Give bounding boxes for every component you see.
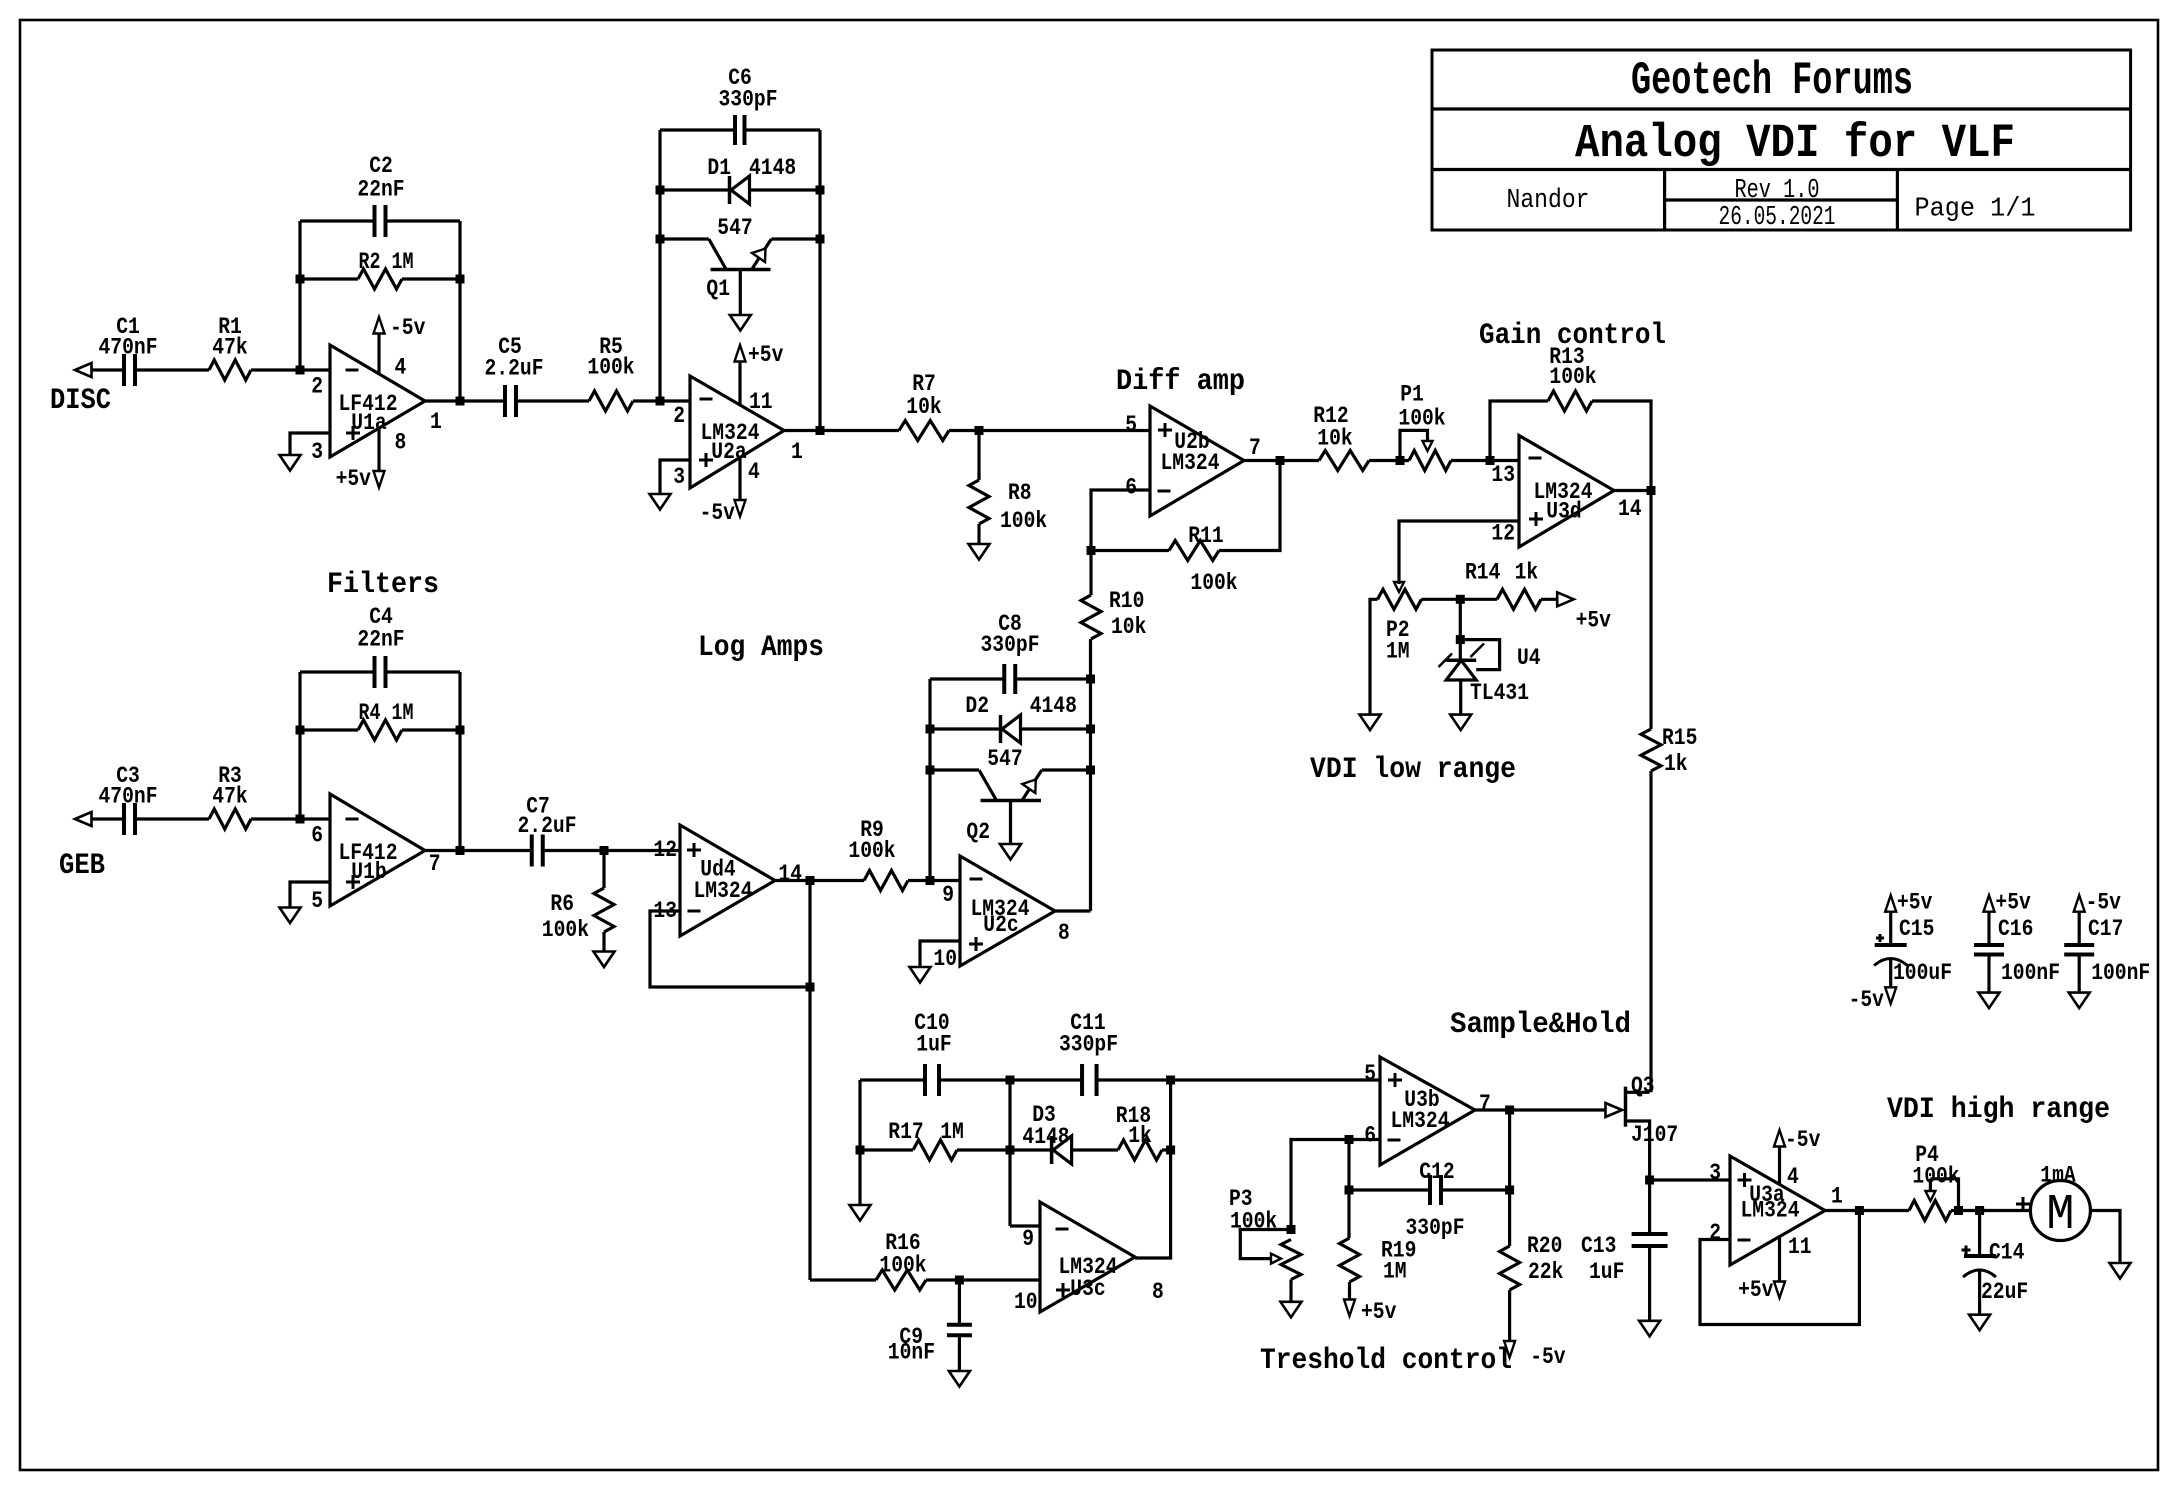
transistor Q3 J107 JFET xyxy=(1606,1073,1679,1180)
svg-text:P1: P1 xyxy=(1400,382,1424,408)
capacitor C15 100uF xyxy=(1849,890,1952,1014)
node D1 anode xyxy=(816,186,825,195)
wire R4 row xyxy=(300,728,460,731)
svg-text:1: 1 xyxy=(430,409,442,435)
svg-text:8: 8 xyxy=(395,430,407,456)
ground at Q2 base xyxy=(1000,844,1021,860)
wire C8 row xyxy=(930,677,1091,680)
wire U1a pin 3 to ground xyxy=(290,433,330,455)
svg-text:Q3: Q3 xyxy=(1631,1073,1655,1099)
capacitor C2 xyxy=(357,153,404,237)
wire R2 row xyxy=(300,277,460,280)
svg-text:47k: 47k xyxy=(212,335,248,361)
svg-text:330pF: 330pF xyxy=(719,87,778,113)
svg-text:100k: 100k xyxy=(587,355,634,381)
ground below C9 xyxy=(949,1371,970,1387)
node Q2 collector xyxy=(926,766,935,775)
node P4 wiper xyxy=(1954,1206,1963,1215)
wire R20 to -5v arrow xyxy=(1508,1290,1511,1345)
wire U2c feedback right vertical xyxy=(1089,679,1092,911)
port GEB input arrow xyxy=(75,812,92,826)
wire R19 vertical xyxy=(1347,1190,1350,1238)
svg-text:470nF: 470nF xyxy=(99,335,158,361)
wire C13 to ground xyxy=(1648,1246,1651,1321)
svg-text:7: 7 xyxy=(429,851,441,877)
svg-text:547: 547 xyxy=(987,746,1022,772)
wire R10 to C8 row xyxy=(1089,639,1092,679)
svg-text:330pF: 330pF xyxy=(981,632,1040,658)
node P3 top xyxy=(1287,1225,1296,1234)
svg-text:+5v: +5v xyxy=(1995,890,2031,916)
power pin 4 of U3a -5v xyxy=(1774,1127,1821,1184)
svg-text:4148: 4148 xyxy=(1022,1124,1069,1150)
wire C4 row xyxy=(300,670,460,673)
svg-text:J107: J107 xyxy=(1631,1122,1678,1148)
wire U3c output vertical xyxy=(1135,1080,1171,1258)
svg-text:4: 4 xyxy=(395,354,407,380)
svg-text:3: 3 xyxy=(311,439,323,465)
wire R9 to U2c pin 9 xyxy=(908,879,960,882)
svg-text:1uF: 1uF xyxy=(1589,1259,1624,1285)
wire U2a feedback left vertical xyxy=(658,130,661,401)
op-amp U1a xyxy=(330,345,425,457)
resistor R14 xyxy=(1465,560,1541,610)
svg-text:-5v: -5v xyxy=(390,315,426,341)
wire Ud4 output to R9 xyxy=(775,879,864,882)
node Q1 collector xyxy=(656,235,665,244)
svg-text:R17: R17 xyxy=(888,1119,923,1145)
capacitor C12 xyxy=(1406,1159,1465,1241)
svg-text:100k: 100k xyxy=(1230,1209,1277,1235)
svg-text:U1a: U1a xyxy=(351,410,387,436)
svg-text:10: 10 xyxy=(933,946,957,972)
wire C6 row xyxy=(660,128,820,131)
svg-text:6: 6 xyxy=(311,823,323,849)
node U1a output feedback xyxy=(456,397,465,406)
resistor R18 xyxy=(1116,1103,1162,1160)
wire C10 left down to R17 xyxy=(858,1080,861,1205)
wire R15 to Q3 drain xyxy=(1649,771,1652,1092)
svg-text:R10: R10 xyxy=(1109,588,1144,614)
svg-text:-5v: -5v xyxy=(1785,1127,1821,1153)
svg-text:R11: R11 xyxy=(1188,523,1223,549)
capacitor C5 xyxy=(485,334,544,417)
capacitor C7 xyxy=(518,794,577,867)
svg-text:Rev 1.0: Rev 1.0 xyxy=(1735,176,1820,206)
wire node to C14 xyxy=(1978,1211,1981,1257)
op-amp U2b xyxy=(1150,406,1244,516)
wire R3 to U1b pin 6 xyxy=(251,817,330,820)
svg-text:R8: R8 xyxy=(1008,480,1032,506)
ground below P2 xyxy=(1360,715,1381,731)
svg-text:U1b: U1b xyxy=(351,859,386,885)
svg-text:R2 1M: R2 1M xyxy=(359,249,414,275)
capacitor C4 xyxy=(357,604,404,688)
title block frame xyxy=(1432,50,2131,230)
wire Q2 row xyxy=(930,768,1091,771)
wire R12 to P1 xyxy=(1369,459,1409,462)
capacitor C3 xyxy=(99,763,158,835)
svg-text:547: 547 xyxy=(717,215,752,241)
ground below C14 xyxy=(1969,1315,1990,1331)
wire U3a output to P4 xyxy=(1825,1209,1909,1212)
node R7 R8 junction xyxy=(975,426,984,435)
svg-text:+5v: +5v xyxy=(1897,890,1933,916)
svg-text:Sample&Hold: Sample&Hold xyxy=(1450,1008,1631,1042)
wire U2a pin 3 to ground xyxy=(660,460,690,494)
svg-text:100k: 100k xyxy=(848,838,895,864)
ground below C13 xyxy=(1639,1321,1660,1337)
svg-text:100k: 100k xyxy=(1190,570,1237,596)
svg-text:10nF: 10nF xyxy=(888,1340,935,1366)
wire U2c pin 10 to ground xyxy=(920,941,960,967)
transistor Q2 547 xyxy=(966,746,1041,845)
wire P3 to ground xyxy=(1289,1280,1292,1302)
ground below meter return xyxy=(2110,1263,2131,1279)
svg-text:4: 4 xyxy=(748,459,760,485)
power pin 4 of U1a -5v xyxy=(374,315,426,374)
svg-text:100uF: 100uF xyxy=(1893,960,1952,986)
wire R7 to U2b pin 5 xyxy=(949,429,1150,432)
svg-text:4148: 4148 xyxy=(1030,693,1077,719)
svg-text:-5v: -5v xyxy=(1849,987,1885,1013)
svg-text:330pF: 330pF xyxy=(1059,1031,1118,1057)
svg-text:100k: 100k xyxy=(542,917,589,943)
svg-text:LM324: LM324 xyxy=(1161,450,1220,476)
+5v supply arrow below R19 xyxy=(1344,1299,1397,1325)
wire C9 to ground xyxy=(958,1335,961,1371)
wire R5 to U2a pin 2 xyxy=(633,399,690,402)
ground at Q1 base xyxy=(730,315,751,331)
svg-text:R15: R15 xyxy=(1662,725,1697,751)
svg-text:14: 14 xyxy=(1618,496,1642,522)
svg-text:1k: 1k xyxy=(1515,560,1539,586)
svg-text:C13: C13 xyxy=(1581,1233,1616,1259)
wire U3d output down to R15 xyxy=(1649,491,1652,730)
wire C2 row xyxy=(300,219,460,222)
svg-text:1k: 1k xyxy=(1664,751,1688,777)
svg-text:1: 1 xyxy=(1831,1184,1843,1210)
svg-text:5: 5 xyxy=(1364,1061,1376,1087)
wire C3 to R3 xyxy=(135,817,209,820)
wire P2 right to R14 xyxy=(1422,598,1498,601)
svg-text:Filters: Filters xyxy=(327,568,439,602)
-5v supply arrow below R20 xyxy=(1504,1341,1566,1370)
svg-text:11: 11 xyxy=(749,389,773,415)
svg-text:Q1: Q1 xyxy=(706,276,730,302)
wire node to R10 xyxy=(1089,551,1092,596)
op-amp U3d xyxy=(1519,436,1614,548)
capacitor C17 100nF xyxy=(2064,890,2150,1009)
node C12 R19 junction xyxy=(1345,1186,1354,1195)
wire D3 vertical xyxy=(1008,1080,1011,1226)
wire U2c feedback left vertical xyxy=(928,679,931,881)
wire C7 to Ud4 pin 12 xyxy=(543,849,681,852)
wire U3b output to Q3 gate xyxy=(1475,1108,1606,1111)
svg-text:1mA: 1mA xyxy=(2040,1163,2076,1189)
resistor R6 xyxy=(542,888,614,943)
svg-text:VDI high range: VDI high range xyxy=(1887,1093,2110,1127)
capacitor C11 xyxy=(1059,1010,1118,1096)
wire Q3 source to U3a pin 3 xyxy=(1650,1178,1730,1181)
wire pin6 to C12 row vertical xyxy=(1347,1140,1350,1191)
svg-text:+5v: +5v xyxy=(1738,1277,1774,1303)
diode D3 xyxy=(1022,1102,1071,1164)
resistor R13 xyxy=(1548,344,1597,411)
svg-text:D1: D1 xyxy=(707,155,731,181)
wire U2b output to R12 xyxy=(1244,459,1319,462)
meter plus sign xyxy=(2016,1203,2030,1206)
node R12 P1 wiper xyxy=(1396,456,1405,465)
node D2 cathode xyxy=(926,725,935,734)
wire U1b feedback left vertical xyxy=(298,672,301,819)
shunt regulator U4 TL431 xyxy=(1439,644,1541,707)
svg-text:2: 2 xyxy=(673,403,685,429)
ground below R8 xyxy=(969,544,990,560)
wire C14 to ground xyxy=(1978,1270,1981,1315)
ground below R17 left xyxy=(850,1205,871,1221)
op-amp Ud4 xyxy=(680,825,775,936)
wire U2c output to feedback vertical xyxy=(1055,909,1091,912)
resistor R3 xyxy=(209,763,251,829)
capacitor C6 xyxy=(719,65,778,145)
resistor R2 xyxy=(358,249,414,289)
svg-text:13: 13 xyxy=(1491,462,1515,488)
svg-text:M: M xyxy=(2046,1187,2074,1244)
svg-text:TL431: TL431 xyxy=(1470,680,1529,706)
node U3d output xyxy=(1647,486,1656,495)
node R16 C9 junction xyxy=(955,1276,964,1285)
svg-text:LM324: LM324 xyxy=(1391,1108,1450,1134)
potentiometer P4 xyxy=(1909,1142,1960,1221)
node U3b pin6 C12 vertical xyxy=(1345,1135,1354,1144)
svg-text:Analog VDI for VLF: Analog VDI for VLF xyxy=(1575,118,2015,171)
wire U1a feedback right vertical xyxy=(458,221,461,401)
diode D1 xyxy=(707,155,796,204)
wire C10 C11 top row xyxy=(860,1078,1380,1081)
svg-text:C15: C15 xyxy=(1899,916,1934,942)
wire U1b output to C7 xyxy=(425,849,532,852)
power pin 11 of U3a +5v xyxy=(1738,1237,1785,1303)
wire R8 to ground xyxy=(977,524,980,544)
potentiometer P2 xyxy=(1378,589,1422,664)
svg-text:3: 3 xyxy=(673,464,685,490)
node R20 top xyxy=(1505,1186,1514,1195)
ground at U1b pin 5 xyxy=(280,908,301,924)
potentiometer P3 xyxy=(1229,1186,1301,1280)
wire U1a feedback left vertical xyxy=(298,221,301,370)
svg-text:6: 6 xyxy=(1125,475,1137,501)
svg-text:Nandor: Nandor xyxy=(1507,186,1590,216)
svg-text:22nF: 22nF xyxy=(357,177,404,203)
svg-text:10k: 10k xyxy=(1317,426,1353,452)
svg-text:100k: 100k xyxy=(1398,406,1445,432)
wire output down to R20 xyxy=(1508,1110,1511,1246)
capacitor C14 polarized xyxy=(1962,1240,2029,1305)
transistor Q1 547 xyxy=(706,215,771,302)
node C11 R18 junction xyxy=(1166,1076,1175,1085)
node R4 left xyxy=(296,726,305,735)
node D3 R17 junction xyxy=(1006,1146,1015,1155)
wire Ud4 feedback loop xyxy=(650,911,810,987)
wire D1 row xyxy=(660,188,820,191)
svg-text:1: 1 xyxy=(791,439,803,465)
capacitor C1 xyxy=(99,314,158,386)
svg-text:8: 8 xyxy=(1058,920,1070,946)
wire junction down to U4 xyxy=(1459,599,1462,660)
svg-text:-5v: -5v xyxy=(1530,1344,1566,1370)
op-amp U1b xyxy=(330,794,425,906)
wire R1 to U1a pin 2 xyxy=(251,368,330,371)
svg-text:-5v: -5v xyxy=(700,500,736,526)
power pin 4 of U2a -5v xyxy=(700,458,746,526)
ground below U4 xyxy=(1450,715,1471,731)
node U3a output feedback xyxy=(1855,1206,1864,1215)
svg-text:+5v: +5v xyxy=(1576,608,1612,634)
+5v supply arrow right xyxy=(1557,592,1611,633)
svg-text:Treshold control: Treshold control xyxy=(1260,1344,1512,1378)
node Q3 source C13 U3a xyxy=(1645,1176,1654,1185)
svg-text:470nF: 470nF xyxy=(99,784,158,810)
ground at U1a pin 3 xyxy=(280,455,301,471)
svg-text:7: 7 xyxy=(1249,435,1261,461)
svg-text:DISC: DISC xyxy=(50,384,111,418)
potentiometer P1 xyxy=(1398,382,1451,471)
wire P1 to U3d pin 13 xyxy=(1451,459,1519,462)
wire R18 to right vertical xyxy=(1162,1148,1171,1151)
wire U3a feedback loop xyxy=(1700,1211,1859,1325)
node U2b output R11 feedback xyxy=(1276,456,1285,465)
svg-text:C14: C14 xyxy=(1989,1240,2025,1266)
capacitor C13 xyxy=(1581,1233,1668,1285)
ground at U2a pin 3 xyxy=(650,494,671,510)
resistor R10 xyxy=(1081,588,1147,640)
wire U4 anode to ground xyxy=(1459,680,1462,715)
node U3b output C12 R20 xyxy=(1505,1106,1514,1115)
wire U1b pin 5 to ground xyxy=(290,882,330,908)
op-amp U3b xyxy=(1380,1057,1475,1165)
wire U3d output to R15 vertical xyxy=(1614,489,1651,492)
svg-text:U4: U4 xyxy=(1517,645,1541,671)
node U1b output feedback xyxy=(456,846,465,855)
node R2 right xyxy=(456,275,465,284)
wire U3c pin 9 xyxy=(1010,1224,1040,1227)
ground below R6 xyxy=(594,952,615,968)
node R2 left xyxy=(296,275,305,284)
wire R6 to ground xyxy=(602,932,605,952)
wire U1b feedback right vertical xyxy=(458,672,461,851)
svg-text:5: 5 xyxy=(311,888,323,914)
svg-text:Diff amp: Diff amp xyxy=(1116,365,1245,399)
wire node to C9 xyxy=(958,1280,961,1325)
node C7 R6 junction xyxy=(600,846,609,855)
op-amp U2a xyxy=(690,376,784,488)
wire GEB input to C3 xyxy=(92,817,125,820)
wire C5 to R5 xyxy=(516,399,589,402)
wire U3d pin 12 to P2 wiper xyxy=(1399,521,1519,584)
svg-text:22nF: 22nF xyxy=(357,627,404,653)
resistor R5 xyxy=(587,334,634,411)
node R18 right xyxy=(1166,1146,1175,1155)
svg-text:LM324: LM324 xyxy=(694,878,753,904)
wire R14 to +5v arrow xyxy=(1541,598,1557,601)
svg-text:10k: 10k xyxy=(1111,614,1147,640)
svg-text:+5v: +5v xyxy=(748,342,784,368)
capacitor C16 100nF xyxy=(1974,890,2060,1009)
svg-text:Q2: Q2 xyxy=(966,819,990,845)
node P2 R14 U4 junction xyxy=(1456,595,1465,604)
resistor R4 xyxy=(358,700,414,740)
node U1a inverting input xyxy=(296,366,305,375)
op-amp U3c xyxy=(1040,1202,1135,1312)
svg-text:U2c: U2c xyxy=(983,912,1018,938)
wire P4 to meter xyxy=(1951,1209,2030,1212)
svg-text:8: 8 xyxy=(1152,1279,1164,1305)
svg-text:1uF: 1uF xyxy=(916,1031,951,1057)
wire C1 to R1 xyxy=(135,368,209,371)
wire P2 left to ground xyxy=(1370,599,1378,714)
svg-text:6: 6 xyxy=(1364,1123,1376,1149)
svg-text:R6: R6 xyxy=(550,891,574,917)
svg-text:22uF: 22uF xyxy=(1981,1279,2028,1305)
svg-text:C16: C16 xyxy=(1998,916,2033,942)
node C14 junction xyxy=(1975,1206,1984,1215)
port DISC input arrow xyxy=(75,363,92,377)
svg-text:9: 9 xyxy=(1022,1226,1034,1252)
node R17 left xyxy=(856,1146,865,1155)
node U4 ref xyxy=(1456,635,1465,644)
wire U2b pin 6 net xyxy=(1091,490,1150,551)
wire C12 row xyxy=(1349,1188,1510,1191)
wire R11 row xyxy=(1091,461,1280,551)
resistor R17 xyxy=(888,1119,964,1160)
svg-text:Log Amps: Log Amps xyxy=(698,631,824,665)
svg-text:100k: 100k xyxy=(879,1253,926,1279)
wire R16 row xyxy=(810,1278,1040,1281)
svg-text:100k: 100k xyxy=(1549,364,1596,390)
node U2a output feedback xyxy=(816,426,825,435)
power pin 8 of U1a +5v xyxy=(336,428,385,492)
svg-text:+5v: +5v xyxy=(1361,1299,1397,1325)
svg-text:3: 3 xyxy=(1709,1160,1721,1186)
svg-text:100k: 100k xyxy=(1000,508,1047,534)
svg-text:C12: C12 xyxy=(1419,1159,1454,1185)
svg-text:47k: 47k xyxy=(212,784,248,810)
svg-text:D2: D2 xyxy=(965,693,989,719)
resistor R7 xyxy=(899,371,949,441)
svg-text:26.05.2021: 26.05.2021 xyxy=(1719,203,1836,233)
wire U4 ref box xyxy=(1460,640,1499,670)
op-amp U3a xyxy=(1730,1156,1825,1265)
svg-text:2.2uF: 2.2uF xyxy=(485,355,544,381)
ground at U2c pin 10 xyxy=(910,967,931,983)
resistor R20 xyxy=(1500,1233,1564,1290)
svg-text:4: 4 xyxy=(1787,1164,1799,1190)
svg-text:1k: 1k xyxy=(1128,1123,1152,1149)
svg-text:-5v: -5v xyxy=(2086,890,2122,916)
node Ud4 output xyxy=(806,876,815,885)
wire Q1 base to ground xyxy=(739,270,742,316)
node D1 cathode xyxy=(656,186,665,195)
meter M 1mA xyxy=(2030,1163,2090,1245)
svg-text:VDI low range: VDI low range xyxy=(1310,753,1516,787)
capacitor C10 xyxy=(914,1010,951,1096)
svg-text:R14: R14 xyxy=(1465,560,1501,586)
svg-text:1M: 1M xyxy=(940,1119,964,1145)
resistor R8 xyxy=(969,480,1047,534)
node R4 right xyxy=(456,726,465,735)
svg-text:1M: 1M xyxy=(1383,1259,1407,1285)
